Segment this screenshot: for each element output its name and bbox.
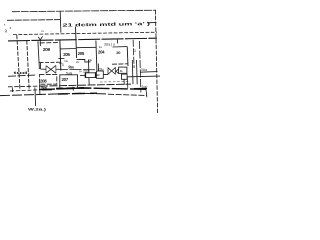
svg-text:207: 207 [62, 77, 69, 82]
svg-text:208: 208 [40, 78, 47, 83]
svg-text:tud.: tud. [14, 70, 31, 75]
svg-text:3Ua.) u: 3Ua.) u [104, 43, 115, 47]
svg-text:W.2a.): W.2a.) [28, 106, 47, 111]
svg-text:..: .. [51, 29, 53, 33]
svg-text:3Ua: 3Ua [141, 68, 147, 72]
svg-text:204: 204 [98, 49, 105, 54]
svg-text:m.: m. [41, 29, 44, 33]
svg-text:x.: x. [120, 69, 123, 73]
svg-text:205: 205 [78, 51, 85, 56]
svg-text:209: 209 [43, 47, 51, 53]
svg-text:1u: 1u [99, 45, 103, 49]
svg-text:(u: (u [79, 69, 82, 73]
svg-text:5uai: 5uai [66, 72, 73, 76]
svg-text:mu: mu [64, 59, 68, 63]
svg-text:Mu: Mu [88, 58, 92, 62]
svg-text:2u: 2u [76, 60, 80, 64]
svg-text:Wai: Wai [41, 86, 47, 90]
svg-text:205: 205 [63, 52, 70, 57]
svg-text:3ua): 3ua) [142, 85, 148, 89]
svg-text:202: 202 [83, 70, 89, 74]
svg-text:5Ua: 5Ua [68, 66, 74, 70]
svg-text:3: 3 [134, 49, 136, 53]
svg-text:20u: 20u [98, 68, 104, 72]
svg-text:3u: 3u [59, 61, 63, 65]
